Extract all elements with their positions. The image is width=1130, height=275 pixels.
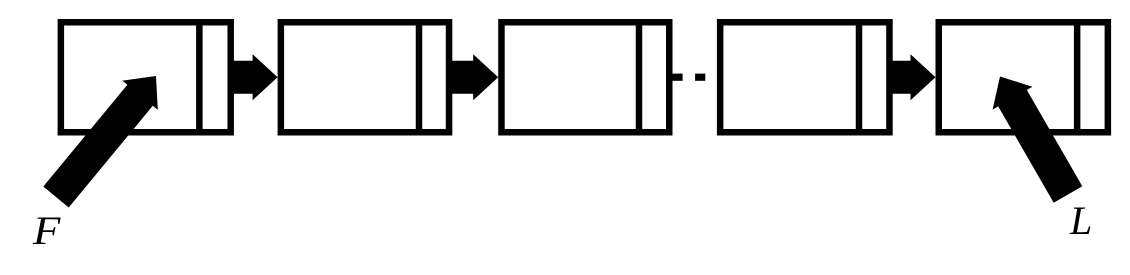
node 5 box bbox=[939, 22, 1108, 132]
node 3 box bbox=[501, 22, 669, 132]
svg-text:F: F bbox=[32, 209, 62, 253]
node 1 pointer-field divider bbox=[196, 19, 203, 136]
node 4 box bbox=[720, 22, 889, 132]
last pointer arrow L bbox=[993, 77, 1083, 203]
arrow node2 to node3 bbox=[449, 54, 498, 100]
node 2 box bbox=[281, 22, 449, 132]
arrow node4 to node5 bbox=[890, 54, 936, 100]
node 4 pointer-field divider bbox=[856, 19, 863, 136]
arrow node1 to node2 bbox=[231, 54, 278, 100]
front pointer arrow F bbox=[43, 76, 158, 208]
node 5 pointer-field divider bbox=[1074, 19, 1081, 136]
node 1 box bbox=[61, 22, 231, 132]
ellipsis dash 2 bbox=[695, 74, 705, 81]
node 3 pointer-field divider bbox=[636, 19, 643, 136]
node 2 pointer-field divider bbox=[416, 19, 423, 136]
svg-text:L: L bbox=[1069, 198, 1092, 243]
ellipsis dash 1 bbox=[671, 74, 683, 81]
